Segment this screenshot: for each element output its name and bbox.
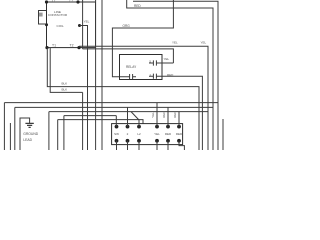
svg-text:L2: L2	[137, 132, 141, 136]
strip bottom wire 2	[127, 141, 129, 150]
terminal dot T1	[45, 46, 48, 49]
strip bottom wire 4	[156, 141, 158, 150]
right stub x=223	[222, 119, 224, 150]
mid drop x=57.7	[57, 120, 59, 150]
wire BLK 2: T1 down and right to x=82.6	[50, 48, 82, 93]
strip bottom wire 3	[138, 141, 140, 150]
left drop x=4.4	[3, 103, 5, 150]
svg-text:YEL: YEL	[154, 132, 160, 136]
wire: coil right to YEL drop x=87.5	[80, 26, 88, 151]
svg-text:RED: RED	[173, 111, 177, 118]
relay contact pin 5	[149, 60, 162, 65]
bus line 3	[49, 111, 208, 113]
left drop x=14.8	[14, 107, 16, 150]
overload bracket OL	[39, 11, 47, 25]
svg-text:YEL: YEL	[201, 40, 207, 44]
bus line 2	[15, 106, 213, 108]
svg-text:RED: RED	[165, 132, 172, 136]
wire: x82.6 corner to relay pin5 riser	[83, 49, 174, 63]
wire YEL: T2 to right drop	[79, 46, 208, 150]
mid drop x=48.9	[48, 112, 50, 150]
strip feeder terminal 6	[178, 112, 180, 127]
wire: vertical x=82.6 lower part	[82, 92, 84, 150]
jog wire at last terminal	[179, 141, 184, 150]
wire ORG: from top edge to relay coil	[112, 0, 173, 77]
svg-text:T1: T1	[52, 43, 56, 47]
svg-text:GROUND: GROUND	[23, 132, 39, 136]
wire BLK 1: T1 down and right	[47, 48, 199, 150]
strip feeder terminal 5	[167, 107, 169, 126]
relay pin5 wire out to riser	[162, 62, 173, 64]
wire: vertical x=102	[101, 0, 103, 150]
relay contact lower right	[149, 74, 162, 79]
mid drop x=63.9	[63, 116, 65, 150]
svg-text:L1: L1	[52, 0, 56, 3]
coil terminal dot left	[45, 23, 48, 26]
terminal dot L2	[76, 0, 79, 3]
strip bottom wire 1	[116, 141, 118, 150]
terminal dot T2	[77, 46, 80, 49]
wire: relay RED out	[162, 76, 202, 150]
wire: vertical x=95.6	[95, 0, 97, 150]
ground symbol	[25, 123, 33, 127]
svg-text:CONTACTOR: CONTACTOR	[48, 13, 68, 17]
svg-text:RED: RED	[176, 132, 183, 136]
svg-text:RED: RED	[162, 111, 166, 118]
svg-text:BLK: BLK	[62, 82, 68, 86]
svg-text:SW: SW	[114, 132, 119, 136]
bus line 4	[64, 115, 116, 117]
svg-text:COIL: COIL	[57, 24, 65, 28]
strip feeder terminal 3 (diagonal)	[131, 112, 139, 127]
terminal strip box	[112, 124, 183, 145]
svg-text:LEAD: LEAD	[23, 138, 32, 142]
contactor box	[47, 2, 96, 48]
svg-text:YEL: YEL	[151, 112, 155, 118]
ground lead wire	[20, 118, 30, 150]
svg-text:YEL: YEL	[84, 20, 90, 24]
relay box	[120, 55, 163, 80]
strip bottom wire 5	[167, 141, 169, 150]
strip top dots	[115, 125, 119, 129]
wire P: top bus upper	[133, 1, 218, 150]
strip feeder terminal 1	[115, 116, 117, 127]
svg-text:BLK: BLK	[62, 87, 68, 91]
relay coil contact (bottom left)	[128, 74, 136, 79]
svg-text:YEL: YEL	[164, 57, 170, 61]
svg-text:L2: L2	[70, 0, 74, 3]
bus line 5	[58, 120, 143, 124]
wire Q: top red bus	[127, 0, 213, 150]
svg-text:YEL: YEL	[172, 40, 178, 44]
wire: vertical from top x=82.6 upper part	[82, 0, 84, 49]
bus line 1	[4, 102, 218, 104]
svg-text:RED: RED	[167, 73, 174, 77]
strip feeder terminal 4	[156, 103, 158, 127]
coil terminal dot right	[78, 24, 81, 27]
svg-text:RED: RED	[134, 4, 141, 8]
left stub x=10.4	[9, 123, 11, 150]
strip bottom dots	[115, 139, 119, 143]
svg-text:T2: T2	[70, 43, 74, 47]
terminal dot L1	[45, 0, 48, 3]
svg-text:RELAY: RELAY	[126, 65, 137, 69]
svg-text:ORG: ORG	[123, 24, 131, 28]
strip feeder terminal 2	[127, 107, 129, 126]
